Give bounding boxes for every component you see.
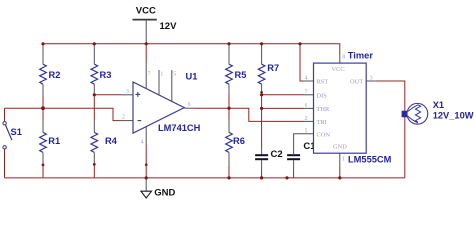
resistor R3 [91, 44, 111, 95]
junction R5/R6 output node [227, 107, 230, 110]
svg-text:GND: GND [154, 187, 175, 198]
svg-text:GND: GND [333, 144, 347, 151]
svg-text:CON: CON [317, 131, 331, 138]
junction top rail R2 corner [41, 42, 44, 45]
svg-text:4: 4 [141, 140, 144, 146]
svg-text:VCC: VCC [136, 6, 156, 17]
svg-text:8: 8 [342, 55, 345, 61]
junction op-amp pin4 [145, 163, 148, 166]
lamp X1 [402, 100, 474, 124]
svg-text:R1: R1 [48, 136, 60, 146]
wire left mid rail to op-amp inverting input [5, 108, 122, 120]
wire THR from R7/C2 node [262, 107, 304, 109]
svg-text:LM741CH: LM741CH [158, 123, 201, 133]
svg-text:R2: R2 [49, 70, 61, 80]
resistor R7 [258, 44, 279, 93]
junction top rail RST branch [298, 42, 301, 45]
op-amp output pin 6 lead [184, 107, 194, 109]
wire S1 top branch [4, 108, 6, 121]
svg-text:4: 4 [305, 76, 308, 82]
svg-text:5: 5 [305, 128, 308, 134]
svg-text:S1: S1 [11, 127, 22, 137]
wire 555 OUT to lamp [376, 81, 405, 111]
wire top VCC rail [43, 44, 340, 54]
op-amp pin 1 [158, 70, 160, 95]
svg-text:R3: R3 [100, 70, 112, 80]
svg-text:2: 2 [122, 115, 125, 121]
junction bottom rail near C1 [285, 176, 288, 179]
svg-text:5: 5 [173, 72, 176, 78]
capacitor C1 [287, 141, 316, 178]
wire S1 bottom branch [4, 149, 6, 178]
wire op-amp output to R5/R6 node and 555 TRI [194, 108, 304, 121]
timer U2 LM555CM box [314, 51, 392, 165]
wire RST from VCC rail [300, 44, 304, 81]
junction bottom rail GND [145, 176, 148, 179]
ground symbol [141, 178, 176, 199]
555 GND pin wire to rail [339, 166, 341, 178]
op-amp pin 7 (V+) [145, 44, 147, 62]
svg-text:2: 2 [305, 116, 308, 122]
svg-text:VCC: VCC [332, 66, 345, 73]
junction top rail VCC [145, 42, 148, 45]
svg-text:7: 7 [305, 89, 308, 95]
svg-text:3: 3 [370, 76, 373, 82]
555 pin leads [304, 80, 314, 82]
svg-text:Timer: Timer [348, 51, 374, 61]
svg-text:DIS: DIS [317, 92, 328, 99]
svg-text:R5: R5 [235, 70, 247, 80]
svg-text:OUT: OUT [350, 79, 363, 86]
svg-text:LM555CM: LM555CM [348, 154, 392, 164]
svg-text:THR: THR [317, 106, 331, 113]
svg-text:12V_10W: 12V_10W [433, 111, 474, 121]
svg-text:6: 6 [305, 103, 308, 109]
svg-text:TRI: TRI [317, 119, 327, 126]
junction bottom rail R6 [227, 176, 230, 179]
svg-text:12V: 12V [160, 21, 178, 32]
junction bottom rail 555 GND [338, 176, 341, 179]
junction top rail R7 [260, 42, 263, 45]
junction top rail R3 [93, 42, 96, 45]
resistor R4 [91, 95, 118, 178]
wire bottom ground rail [5, 177, 405, 179]
svg-text:1: 1 [342, 157, 345, 163]
op-amp U1 LM741CH [133, 71, 201, 133]
svg-text:RST: RST [317, 79, 329, 86]
wire R7 to C2 (DIS/THR node) [261, 92, 263, 147]
resistor R6 [226, 108, 245, 178]
wire DIS from R7/C2 node [262, 94, 304, 96]
VCC power symbol [133, 6, 178, 44]
wire C1 to CON pin [294, 134, 314, 156]
op-amp pin 4 (V-) [145, 127, 147, 145]
capacitor C2 [255, 149, 283, 178]
op-amp pin 2 lead (-) [121, 120, 133, 122]
junction DIS node [260, 93, 263, 96]
svg-text:7: 7 [148, 72, 151, 78]
junction R3/R4 + input node [93, 93, 96, 96]
op-amp pin 5 [171, 70, 173, 102]
junction top rail R5 [227, 42, 230, 45]
svg-text:R7: R7 [267, 63, 279, 73]
junction R4 bottom pin [93, 163, 96, 166]
svg-text:R4: R4 [105, 136, 118, 146]
wire + input from R3/R4 node [94, 94, 121, 96]
junction bottom rail C2 [260, 176, 263, 179]
resistor R5 [226, 44, 247, 108]
wire lamp to bottom rail [404, 117, 406, 178]
junction mid rail R2/R1 [41, 106, 45, 110]
svg-text:U1: U1 [186, 71, 198, 81]
switch S1 [3, 122, 22, 150]
op-amp pin 3 lead (+) [121, 94, 133, 96]
svg-text:X1: X1 [433, 100, 444, 110]
resistor R2 [40, 44, 61, 108]
svg-text:C2: C2 [271, 149, 283, 160]
svg-text:R6: R6 [233, 136, 245, 146]
junction R1 bottom pin [42, 164, 45, 167]
svg-text:3: 3 [126, 89, 129, 95]
junction R7 bottom pin [260, 91, 263, 94]
junction THR node [260, 107, 263, 110]
resistor R1 [40, 108, 60, 178]
svg-text:1: 1 [160, 72, 163, 78]
svg-text:6: 6 [188, 102, 191, 108]
